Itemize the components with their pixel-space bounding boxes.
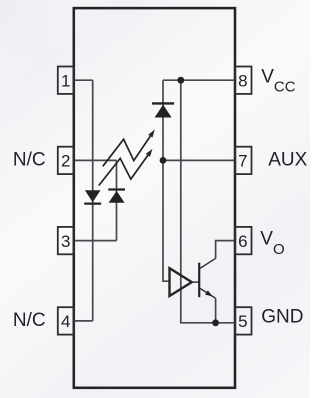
wire pin 7 (AUX) [163,159,235,161]
junction dot at AUX / photodiode anode [160,157,167,164]
wire VCC-GND rail through amplifier [181,80,235,323]
pin 5 box [235,307,251,334]
photodiode PD [152,103,174,117]
wire emitter to GND rail [215,298,217,323]
svg-text:N/C: N/C [13,310,46,331]
pin 8 box [235,67,251,94]
wire photodiode rail to amplifier input [163,80,170,281]
amplifier A1 [170,268,192,296]
svg-text:6: 6 [238,232,247,251]
light emission arrow 1 [103,130,155,167]
wire right LED rail (D2 to pin 3) [116,160,118,240]
svg-text:AUX: AUX [268,149,307,170]
svg-text:5: 5 [238,312,247,331]
IC body outline [74,8,235,388]
svg-text:8: 8 [238,71,247,90]
wire left LED rail (pin 1 to pin 4) [92,80,94,321]
svg-text:1: 1 [61,71,70,90]
svg-text:3: 3 [61,232,70,251]
pin 3 box [58,227,74,254]
wire pin 8 (VCC) [163,79,235,81]
svg-text:4: 4 [61,312,70,331]
wire pin 1 stub [74,79,93,81]
wire amplifier output to base [192,281,199,283]
pin 6 box [235,227,251,254]
junction dot at emitter / GND [212,319,219,326]
svg-text:2: 2 [61,152,70,171]
svg-text:N/C: N/C [13,149,46,170]
LED D1 (cathode down) [84,190,101,203]
pin 2 box [58,147,74,174]
svg-text:GND: GND [261,307,303,328]
pin 7 box [235,147,251,174]
svg-text:7: 7 [238,152,247,171]
light emission arrow 2 [99,149,153,186]
wire pin 4 stub [74,320,93,322]
transistor Q1 [199,258,215,298]
pin 1 box [58,67,74,94]
wire pin 2 to LED D2 cathode [74,159,117,161]
wire pin 3 stub [74,240,117,242]
LED D2 (cathode up) [108,190,125,203]
wire pin 6 (VO) to collector [216,241,236,259]
junction dot at VCC rail [177,77,184,84]
pin 4 box [58,307,74,334]
